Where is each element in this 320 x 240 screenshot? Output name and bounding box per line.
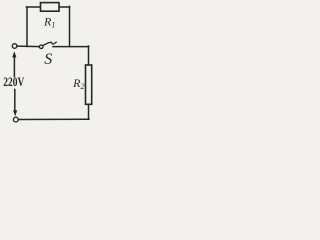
background <box>0 0 102 132</box>
wire top horizontal left segment <box>26 6 40 8</box>
arrow down toward bottom terminal <box>13 110 17 116</box>
wire top-left vertical branch <box>26 7 28 46</box>
switch S lever <box>43 42 56 46</box>
wire right vertical into R2 <box>88 46 90 65</box>
wire bottom horizontal <box>18 118 89 120</box>
wire source upper segment <box>13 57 15 77</box>
svg-text:S: S <box>44 51 52 68</box>
terminal bottom-left <box>13 117 18 122</box>
switch S contact circle <box>39 45 43 49</box>
wire top horizontal right segment <box>59 6 70 8</box>
resistor R1 <box>41 3 60 12</box>
wire switch row: terminal to switch contact <box>17 45 40 48</box>
wire switch row: lever end to right corner <box>53 46 89 48</box>
wire right branch vertical down to junction <box>69 6 71 46</box>
wire R2 bottom to corner <box>88 104 90 119</box>
resistor R2 <box>86 65 92 104</box>
wire source lower segment <box>14 90 16 111</box>
arrow up toward top terminal <box>12 51 16 57</box>
svg-text:220V: 220V <box>3 74 24 89</box>
terminal top-left <box>12 44 17 49</box>
